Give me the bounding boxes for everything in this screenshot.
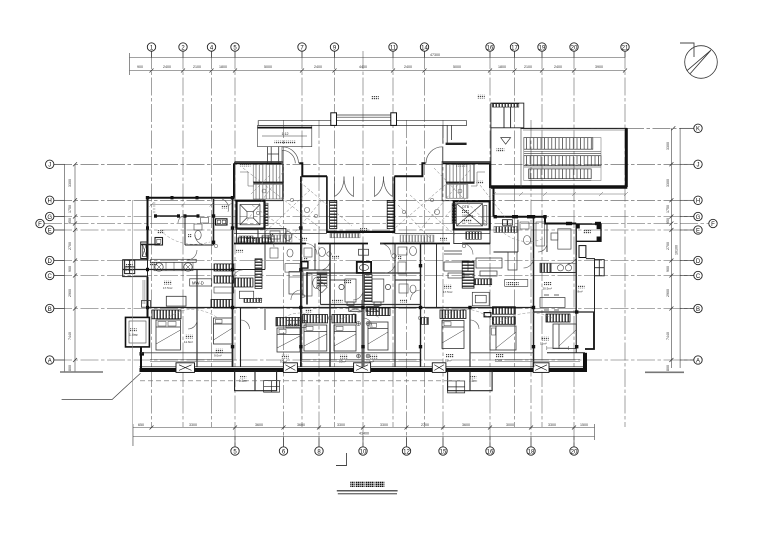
svg-text:3300: 3300 xyxy=(666,142,670,150)
dark tag box xyxy=(484,313,491,317)
svg-text:2900: 2900 xyxy=(666,289,670,297)
lobby jamb hatch left xyxy=(330,201,337,229)
svg-text:2900: 2900 xyxy=(68,289,72,297)
svg-text:11m²: 11m² xyxy=(540,342,547,346)
lobby jamb hatch right xyxy=(387,201,394,229)
svg-text:900: 900 xyxy=(68,266,72,272)
svg-text:B: B xyxy=(696,307,700,313)
building left edge axis extension xyxy=(132,200,134,446)
svg-text:A: A xyxy=(48,358,52,364)
grid vertical axis lines xyxy=(152,51,626,446)
svg-text:C: C xyxy=(696,274,701,280)
bedroom 7 label xyxy=(445,354,454,363)
door jamb blocks xyxy=(140,196,602,356)
left wing interior walls xyxy=(123,176,330,367)
bottom bump right (laundry balcony) xyxy=(448,371,493,393)
door arcs interior xyxy=(187,238,577,329)
unit3 rooms (x302-330) xyxy=(301,244,330,271)
svg-text:12: 12 xyxy=(403,449,410,455)
svg-text:10: 10 xyxy=(360,449,367,455)
MW-D distribution box label xyxy=(190,279,212,286)
svg-text:G: G xyxy=(47,215,52,221)
bed 2 wardrobe xyxy=(211,300,233,308)
bed 5 wardrobe xyxy=(332,315,356,323)
shaft label xyxy=(129,328,139,337)
svg-text:4400: 4400 xyxy=(359,65,367,69)
storage room desk top-right xyxy=(551,229,571,249)
svg-text:3.0m²: 3.0m² xyxy=(125,268,135,272)
left wing room labels xyxy=(150,233,312,312)
svg-text:7440: 7440 xyxy=(68,332,72,340)
TV cabinet left living xyxy=(166,296,186,306)
ramp label xyxy=(497,148,505,152)
ramp hatch band 1 xyxy=(524,138,593,150)
svg-text:900: 900 xyxy=(666,266,670,272)
mid units interior walls xyxy=(330,244,421,368)
svg-text:950: 950 xyxy=(666,218,670,224)
svg-text:19: 19 xyxy=(539,45,546,51)
right wing top wall on grid G xyxy=(494,188,577,224)
svg-text:11m²: 11m² xyxy=(445,359,452,363)
core top wall left (with door opening) xyxy=(234,163,327,197)
canopy hanger right xyxy=(443,125,467,143)
bath combs left of unit wall xyxy=(421,318,429,325)
svg-text:14: 14 xyxy=(421,45,428,51)
balcony left (bump) xyxy=(123,260,148,277)
svg-text:8m²: 8m² xyxy=(578,290,583,294)
entry door arc upper-left unit xyxy=(178,199,231,245)
svg-text:H: H xyxy=(696,199,700,205)
canopy columns left xyxy=(268,147,279,163)
core top wall right (with door opening) xyxy=(394,163,490,188)
balcony label right xyxy=(578,285,585,294)
service cells below left elevator xyxy=(237,229,286,244)
svg-text:3000: 3000 xyxy=(506,423,514,427)
dim row near bed9 xyxy=(547,346,569,350)
svg-text:3300: 3300 xyxy=(380,423,388,427)
corridor bottom wall xyxy=(234,243,490,245)
left dimension band xyxy=(60,164,103,372)
closet hatch strip unit2 xyxy=(255,259,262,289)
unit3 fixtures xyxy=(303,248,327,297)
AC platform box xyxy=(595,260,605,276)
ramp hatch band 2 xyxy=(524,156,601,166)
vent box 3 xyxy=(354,363,371,373)
ramp lane lines xyxy=(524,138,601,181)
title text xyxy=(337,481,398,494)
right axis bubbles xyxy=(694,124,717,364)
svg-text:2400: 2400 xyxy=(404,65,412,69)
svg-text:2700: 2700 xyxy=(666,242,670,250)
roof label left xyxy=(371,96,379,100)
svg-text:11: 11 xyxy=(390,45,397,51)
right dining label xyxy=(543,282,552,291)
vent box 2 xyxy=(283,363,297,373)
svg-text:5000: 5000 xyxy=(453,65,461,69)
elevator right door hatch xyxy=(452,204,456,224)
svg-text:MW-D: MW-D xyxy=(192,280,204,285)
overhang dashed line below building xyxy=(140,380,465,382)
elevator right OTB xyxy=(454,201,490,229)
stair right xyxy=(442,162,490,201)
axis connector stubs left xyxy=(54,164,65,360)
stair left xyxy=(235,162,284,201)
balcony strip line above bottom wall xyxy=(141,352,534,354)
svg-text:17.5m²: 17.5m² xyxy=(163,286,172,290)
canopy post right xyxy=(391,113,397,126)
svg-text:F: F xyxy=(711,222,715,228)
svg-text:1750: 1750 xyxy=(666,205,670,213)
bottom-right corner wall xyxy=(585,312,594,371)
svg-text:F: F xyxy=(38,222,42,228)
mid bath cluster fixtures xyxy=(285,264,327,305)
west wall window box xyxy=(142,301,151,308)
svg-text:2400: 2400 xyxy=(163,65,171,69)
bed 5 xyxy=(334,325,356,351)
entry door arc right xyxy=(426,147,443,164)
ramp slope triangle symbol xyxy=(501,138,511,145)
svg-text:K: K xyxy=(696,127,700,133)
svg-text:16: 16 xyxy=(487,45,494,51)
svg-text:15: 15 xyxy=(440,449,447,455)
lobby double doors right xyxy=(375,177,393,197)
vent box 5 xyxy=(533,363,549,373)
svg-text:800: 800 xyxy=(68,365,72,371)
bedroom 3 label xyxy=(280,355,289,364)
bed 6 wardrobe xyxy=(367,308,390,316)
svg-text:41400: 41400 xyxy=(359,432,369,436)
bed 3 wardrobe xyxy=(276,318,300,326)
elevator OTB label xyxy=(462,205,473,222)
svg-text:900: 900 xyxy=(137,65,143,69)
equipment tag circles xyxy=(304,207,439,258)
svg-text:3300: 3300 xyxy=(666,179,670,187)
ramp entry label box xyxy=(258,125,312,146)
bed 7 wardrobe xyxy=(440,310,466,318)
svg-text:20: 20 xyxy=(571,45,578,51)
svg-text:2100: 2100 xyxy=(524,65,532,69)
svg-text:16100: 16100 xyxy=(675,245,679,255)
corridor hatch strips xyxy=(262,235,434,242)
svg-text:1500: 1500 xyxy=(580,423,588,427)
svg-text:1:12: 1:12 xyxy=(282,132,289,136)
desk room left of grid10 xyxy=(339,279,356,306)
svg-text:3300: 3300 xyxy=(189,423,197,427)
window line bottom band inner xyxy=(150,360,580,362)
svg-text:A: A xyxy=(696,358,700,364)
bottom bump left (laundry balcony) xyxy=(235,371,280,392)
right living label xyxy=(443,285,452,294)
svg-text:17.5m²: 17.5m² xyxy=(443,290,452,294)
kitchen stove box on grid 10 xyxy=(357,249,371,273)
bedroom 1 label xyxy=(184,335,193,344)
svg-text:10m²: 10m² xyxy=(280,360,287,364)
bedroom 6 label xyxy=(369,355,378,364)
right square table xyxy=(472,292,489,306)
corner fold mark top-right xyxy=(680,43,694,57)
svg-text:D: D xyxy=(696,259,701,265)
annex outline xyxy=(491,128,627,187)
electric outlet symbols grid10 xyxy=(357,322,371,359)
entry room label xyxy=(583,230,591,234)
svg-text:2100: 2100 xyxy=(193,65,201,69)
svg-text:3300: 3300 xyxy=(68,179,72,187)
svg-text:3600: 3600 xyxy=(255,423,263,427)
mid bath fixtures xyxy=(398,247,417,294)
svg-text:47300: 47300 xyxy=(430,53,440,57)
right dining table xyxy=(540,295,565,310)
fire hydrant label box mid xyxy=(286,321,306,328)
svg-text:7440: 7440 xyxy=(666,332,670,340)
svg-text:11.6m²: 11.6m² xyxy=(184,340,193,344)
vent grille boxes at grid10 xyxy=(349,307,379,312)
unit2 bath fixtures xyxy=(270,231,293,258)
elevator left xyxy=(237,201,269,229)
unit2 kitchen counter xyxy=(235,262,308,303)
svg-text:2400: 2400 xyxy=(314,65,322,69)
west wall window ticks xyxy=(143,203,155,304)
svg-text:2700: 2700 xyxy=(421,423,429,427)
svg-text:E: E xyxy=(48,228,52,234)
svg-text:J: J xyxy=(697,163,700,169)
svg-text:1800: 1800 xyxy=(219,65,227,69)
entrance labels xyxy=(240,163,467,240)
svg-text:1800: 1800 xyxy=(498,65,506,69)
canopy post left xyxy=(331,113,337,126)
mid room split walls xyxy=(307,273,421,305)
axis connector stubs right xyxy=(680,128,694,360)
axis connector stubs bottom xyxy=(235,437,574,447)
extra wiring arcs rooms xyxy=(160,230,552,322)
top axis bubbles xyxy=(147,43,629,51)
svg-text:800: 800 xyxy=(666,365,670,371)
shaft 风井 (bump) xyxy=(126,317,150,347)
right living sofa xyxy=(444,262,468,278)
bedroom 5 label xyxy=(339,355,348,364)
internal dim line left wing top xyxy=(150,203,233,207)
svg-text:2400: 2400 xyxy=(554,65,562,69)
left balcony label xyxy=(125,264,135,272)
svg-text:950: 950 xyxy=(68,218,72,224)
svg-text:3900: 3900 xyxy=(595,65,603,69)
bed 1 xyxy=(156,320,180,350)
canopy slab xyxy=(258,115,466,125)
grid horizontal axis lines xyxy=(44,128,709,360)
ramp hatch band 3 xyxy=(529,169,592,179)
svg-text:3300: 3300 xyxy=(337,423,345,427)
upper-left texts xyxy=(157,205,228,237)
lobby walls xyxy=(327,176,395,233)
left axis bubbles xyxy=(36,160,54,364)
bedroom 9 label xyxy=(540,337,549,346)
right wing comb row beside closet xyxy=(474,279,492,285)
upper-left jamb blocks xyxy=(154,214,215,244)
svg-text:5000: 5000 xyxy=(264,65,272,69)
right wing closet comb column xyxy=(462,261,474,288)
bed 4 xyxy=(304,325,327,351)
north arrow xyxy=(685,46,718,79)
entry door arc left xyxy=(282,147,299,164)
svg-text:C: C xyxy=(48,274,53,280)
hallway labels mid xyxy=(332,255,407,302)
vent box 4 xyxy=(432,363,446,373)
svg-text:3600: 3600 xyxy=(297,423,305,427)
kitchen cabinets left unit xyxy=(214,264,234,293)
svg-text:9.0m²: 9.0m² xyxy=(214,354,222,358)
bed 8 xyxy=(490,326,516,350)
hatch under lobby xyxy=(330,233,360,238)
grid10 shear wall gray band xyxy=(361,300,364,367)
bed 9 wardrobe xyxy=(546,314,570,322)
door arc below canopy left xyxy=(282,150,295,163)
west wall shaft box with X xyxy=(141,242,148,259)
water meter comb row xyxy=(238,238,271,244)
ramp entry label text xyxy=(274,132,295,144)
svg-text:3600: 3600 xyxy=(462,423,470,427)
svg-text:D: D xyxy=(48,259,53,265)
top dimension band xyxy=(130,53,626,75)
corridor upper line xyxy=(234,233,490,235)
bed 2 xyxy=(214,318,233,344)
svg-text:G: G xyxy=(696,215,701,221)
svg-text:10m²: 10m² xyxy=(495,359,502,363)
svg-text:3300: 3300 xyxy=(548,423,556,427)
right dim terminator xyxy=(645,371,684,373)
svg-text:1750: 1750 xyxy=(68,205,72,213)
leader line bottom-left xyxy=(62,373,141,399)
svg-text:16: 16 xyxy=(487,449,494,455)
right dimension band xyxy=(671,128,680,368)
svg-text:18: 18 xyxy=(528,449,535,455)
closet hatch on grid10 xyxy=(365,275,373,302)
wiring dashed lines core xyxy=(243,168,515,240)
right living extra furniture xyxy=(444,251,517,276)
svg-text:17: 17 xyxy=(511,45,518,51)
svg-text:1.5m²: 1.5m² xyxy=(469,379,477,383)
svg-text:H: H xyxy=(48,199,52,205)
svg-text:20: 20 xyxy=(571,449,578,455)
east balcony xyxy=(576,241,594,312)
desk room right of grid10 xyxy=(372,279,391,306)
svg-text:OTB: OTB xyxy=(462,205,470,209)
svg-text:J: J xyxy=(48,163,51,169)
roof label right xyxy=(477,95,485,99)
bed 7 xyxy=(442,321,464,349)
bottom dimension band xyxy=(133,424,595,446)
service cell below right elevator xyxy=(454,229,490,243)
vent box 1 xyxy=(176,363,195,373)
bottom axis bubbles xyxy=(231,447,578,455)
internal dim line under annex xyxy=(492,192,628,196)
kitchen counter row right xyxy=(540,263,576,272)
svg-text:1000kg: 1000kg xyxy=(462,214,473,218)
bed 3 xyxy=(277,328,300,352)
svg-text:E: E xyxy=(696,228,700,234)
lobby double doors left xyxy=(335,177,354,197)
bed 6 xyxy=(368,322,388,350)
right wing east wall + entry room xyxy=(576,224,601,241)
fire cabinet label box right xyxy=(505,280,528,287)
dining table left unit xyxy=(151,259,197,271)
building: left wing outer walls xyxy=(141,198,233,368)
svg-text:1.0m²: 1.0m² xyxy=(129,333,139,337)
right wing interior walls xyxy=(421,217,595,367)
bump labels xyxy=(239,375,477,383)
upper-left bath fixtures xyxy=(155,218,209,246)
corner fold mark bottom-center xyxy=(336,453,347,466)
bed 8 wardrobe xyxy=(493,307,516,315)
socket circles xyxy=(214,198,465,319)
svg-text:2700: 2700 xyxy=(68,242,72,250)
axis connector stubs top xyxy=(152,51,626,57)
bottom exterior wall with window band xyxy=(140,360,588,371)
right kitchen fixtures xyxy=(494,220,545,246)
svg-text:B: B xyxy=(48,307,52,313)
svg-text:650: 650 xyxy=(138,423,144,427)
bed 1 headboard wardrobe xyxy=(152,310,181,319)
bedroom 2 label xyxy=(214,349,223,358)
annex tower xyxy=(491,103,524,128)
bedroom 8 label xyxy=(495,354,504,363)
bed 9 xyxy=(553,324,576,349)
living room label left xyxy=(163,281,172,290)
bed 4 wardrobe xyxy=(303,315,328,323)
svg-text:20.5m²: 20.5m² xyxy=(543,287,552,291)
east window boxlet xyxy=(579,246,586,258)
MW meter boxes xyxy=(216,219,228,225)
entry room corner blocks xyxy=(576,224,601,241)
svg-text:21: 21 xyxy=(622,45,629,51)
